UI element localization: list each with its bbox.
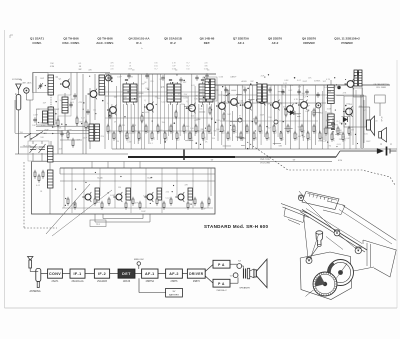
svg-text:0.5M: 0.5M <box>349 129 354 131</box>
svg-text:100P: 100P <box>128 69 133 71</box>
svg-text:200P: 200P <box>71 99 76 101</box>
svg-text:100P: 100P <box>83 138 88 140</box>
svg-text:0.5M: 0.5M <box>33 114 38 116</box>
svg-text:6.8K: 6.8K <box>284 80 289 82</box>
svg-text:0.01: 0.01 <box>110 66 114 68</box>
svg-text:A-520: A-520 <box>241 80 246 83</box>
svg-text:0.5M: 0.5M <box>248 129 250 134</box>
svg-text:0.5M: 0.5M <box>172 69 177 71</box>
svg-text:6.8K: 6.8K <box>149 109 154 111</box>
svg-text:0.5M: 0.5M <box>41 125 46 127</box>
svg-text:POWER: POWER <box>341 41 353 45</box>
svg-text:4.7K: 4.7K <box>294 99 299 101</box>
svg-text:DRIVER: DRIVER <box>189 272 203 276</box>
svg-text:BATTERY: BATTERY <box>169 294 179 297</box>
svg-text:VOL. 10KΩ: VOL. 10KΩ <box>376 87 386 89</box>
svg-text:0.5M: 0.5M <box>219 76 224 78</box>
svg-text:0.5M: 0.5M <box>183 97 188 99</box>
svg-text:2SB76: 2SB76 <box>193 281 201 283</box>
svg-text:150: 150 <box>186 69 189 71</box>
svg-text:200P: 200P <box>261 129 263 134</box>
svg-text:P A: P A <box>218 263 225 267</box>
svg-text:TG-1 OSC: TG-1 OSC <box>23 146 32 148</box>
svg-text:4.5V: 4.5V <box>338 160 343 162</box>
svg-text:0.05: 0.05 <box>154 66 158 68</box>
svg-text:CONV: CONV <box>49 272 61 276</box>
svg-text:AF-2: AF-2 <box>169 272 179 276</box>
svg-text:IF-1: IF-1 <box>136 41 142 45</box>
svg-text:0.1: 0.1 <box>282 137 284 140</box>
svg-text:6.8K: 6.8K <box>143 196 148 198</box>
svg-text:0.1: 0.1 <box>235 130 237 133</box>
svg-text:220: 220 <box>172 130 174 133</box>
svg-text:AGC. CONV.: AGC. CONV. <box>96 41 114 45</box>
svg-text:4.7K: 4.7K <box>295 114 300 116</box>
svg-text:100P: 100P <box>327 108 332 110</box>
svg-text:100P: 100P <box>117 77 122 79</box>
svg-text:100P: 100P <box>223 129 225 134</box>
svg-text:4.7K: 4.7K <box>36 148 41 150</box>
svg-text:Q4 2SA101-AA: Q4 2SA101-AA <box>128 36 150 40</box>
svg-text:VOLT-OHM: VOLT-OHM <box>260 162 270 164</box>
svg-text:CONV.: CONV. <box>32 41 41 45</box>
svg-text:150: 150 <box>153 137 155 140</box>
svg-text:STANDARD Mod. SR-H 600: STANDARD Mod. SR-H 600 <box>204 224 268 229</box>
svg-text:2SA101B: 2SA101B <box>97 280 107 283</box>
svg-text:(+): (+) <box>380 144 383 146</box>
svg-text:AF-1: AF-1 <box>145 272 155 276</box>
svg-text:4.7K: 4.7K <box>161 86 166 88</box>
svg-text:R-7: R-7 <box>186 66 189 68</box>
svg-text:220: 220 <box>110 69 113 71</box>
svg-text:200P: 200P <box>260 114 265 116</box>
svg-text:IF-1: IF-1 <box>74 272 82 276</box>
svg-text:100P: 100P <box>57 131 62 133</box>
svg-text:2SB156×2: 2SB156×2 <box>216 289 227 292</box>
svg-text:Q10, 11 2SB156×2: Q10, 11 2SB156×2 <box>334 36 360 40</box>
svg-text:100P: 100P <box>366 141 371 143</box>
svg-text:ANTENNA: ANTENNA <box>30 290 41 293</box>
svg-text:B-447: B-447 <box>147 178 152 180</box>
svg-text:100P: 100P <box>201 209 206 211</box>
svg-text:OSC. CONV.: OSC. CONV. <box>62 41 80 45</box>
svg-text:Q6 14B-66: Q6 14B-66 <box>200 36 215 40</box>
svg-text:470: 470 <box>88 70 91 72</box>
svg-text:0.5M: 0.5M <box>335 86 340 88</box>
svg-text:0.1: 0.1 <box>79 63 82 65</box>
svg-text:2SB75A: 2SB75A <box>146 280 155 283</box>
svg-text:6.8K: 6.8K <box>253 118 258 120</box>
svg-text:4.7K: 4.7K <box>45 129 50 131</box>
svg-text:Q5 2SA101B: Q5 2SA101B <box>164 36 183 40</box>
svg-text:Q1 2SA71: Q1 2SA71 <box>30 36 44 40</box>
svg-text:4.7K: 4.7K <box>221 102 226 104</box>
svg-text:Q9 2SB76: Q9 2SB76 <box>302 36 316 40</box>
svg-text:Q8 2SB76: Q8 2SB76 <box>268 36 282 40</box>
svg-text:0.5M: 0.5M <box>50 66 55 68</box>
svg-text:0.01: 0.01 <box>134 130 136 134</box>
svg-text:0.05: 0.05 <box>109 130 111 134</box>
svg-text:SP-16: SP-16 <box>382 117 384 122</box>
svg-text:0.5M: 0.5M <box>110 195 115 197</box>
svg-text:B-446: B-446 <box>97 178 102 180</box>
svg-text:0.5M: 0.5M <box>127 142 132 144</box>
svg-text:PNP-TYPE: PNP-TYPE <box>260 159 270 161</box>
svg-text:2SA101-AA: 2SA101-AA <box>71 280 83 283</box>
svg-text:EXTERNAL: EXTERNAL <box>12 78 22 81</box>
svg-text:DET: DET <box>122 272 131 276</box>
svg-text:R-7: R-7 <box>147 130 149 133</box>
svg-text:DET.: DET. <box>204 41 211 45</box>
svg-text:0.01: 0.01 <box>315 130 317 134</box>
svg-text:DRIVER: DRIVER <box>303 41 315 45</box>
svg-text:ON-OFF SWITCH: ON-OFF SWITCH <box>373 84 389 86</box>
svg-text:0.02: 0.02 <box>204 137 206 141</box>
svg-text:140P: 140P <box>55 109 60 111</box>
svg-text:2SA71: 2SA71 <box>52 280 60 283</box>
svg-text:R-7: R-7 <box>154 69 157 71</box>
svg-text:0.5M: 0.5M <box>191 136 193 141</box>
svg-text:220: 220 <box>115 137 117 140</box>
svg-text:0.5M: 0.5M <box>204 69 209 71</box>
svg-text:220: 220 <box>204 63 207 65</box>
svg-text:AF-1: AF-1 <box>238 41 245 45</box>
svg-text:SPEAKER: SPEAKER <box>239 287 250 290</box>
svg-text:IF-2: IF-2 <box>170 41 176 45</box>
svg-text:100P: 100P <box>40 78 45 80</box>
svg-text:AF-2: AF-2 <box>272 41 279 45</box>
svg-text:MFB OSC: MFB OSC <box>134 259 144 261</box>
svg-text:IF-2: IF-2 <box>98 272 106 276</box>
svg-text:Q3 TH-B66: Q3 TH-B66 <box>97 36 113 40</box>
svg-text:Q2 TH-B66: Q2 TH-B66 <box>63 36 79 40</box>
svg-text:100P: 100P <box>141 211 146 213</box>
svg-text:Q7 2SB75A: Q7 2SB75A <box>233 36 250 40</box>
svg-text:R-7: R-7 <box>186 63 189 65</box>
svg-text:470: 470 <box>309 137 311 140</box>
svg-text:14B-66: 14B-66 <box>123 281 131 283</box>
svg-text:100P: 100P <box>318 141 323 143</box>
svg-text:ANT. JACK: ANT. JACK <box>23 81 33 84</box>
svg-text:6.8K: 6.8K <box>324 87 329 89</box>
svg-text:200P: 200P <box>302 81 307 83</box>
svg-text:200P: 200P <box>159 79 164 81</box>
svg-text:100P: 100P <box>128 136 130 141</box>
svg-text:4.7K: 4.7K <box>326 79 331 81</box>
svg-text:P A: P A <box>218 282 225 286</box>
svg-text:2SB76: 2SB76 <box>171 281 179 283</box>
